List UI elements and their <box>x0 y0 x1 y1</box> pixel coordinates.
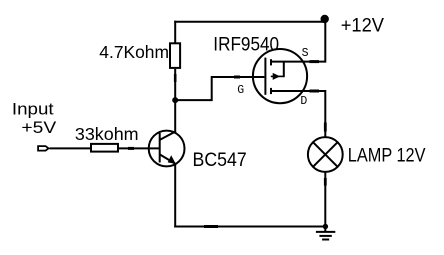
wire drain stub to lamp <box>271 91 325 137</box>
svg-text:D: D <box>300 95 307 108</box>
emitter diagonal <box>160 154 175 163</box>
input connector tag <box>38 146 48 151</box>
wire overlap tick S stub <box>310 60 320 63</box>
wire lamp to ground junction <box>324 172 326 227</box>
wire overlap tick D stub <box>310 90 320 93</box>
transistor Q1 BC547 (NPN) body circle <box>149 131 185 167</box>
lamp cross <box>313 142 338 167</box>
svg-text:S: S <box>302 47 309 60</box>
svg-text:33kohm: 33kohm <box>75 124 139 144</box>
body line with arrow <box>271 75 284 77</box>
wire overlap tick base <box>128 147 134 150</box>
svg-text:BC547: BC547 <box>193 150 247 171</box>
wire overlap tick rail <box>204 225 218 228</box>
wire connector to R2 <box>49 147 90 149</box>
svg-text:4.7Kohm: 4.7Kohm <box>99 42 169 62</box>
wire rail corner down to R1 <box>174 21 176 43</box>
lamp LA1 <box>308 137 343 172</box>
collector diagonal <box>160 131 176 140</box>
resistor R2 33kohm <box>91 144 118 152</box>
wire overlap tick lamp bottom <box>324 178 327 186</box>
svg-text:Input: Input <box>12 101 54 119</box>
ground junction dot <box>323 224 328 229</box>
drain contact plate <box>270 88 272 94</box>
+12V terminal dot <box>321 15 329 23</box>
body-source connector <box>283 62 285 78</box>
wire source stub to +12V corner <box>271 22 325 62</box>
wire emitter down to ground rail <box>174 164 176 228</box>
body arrow head <box>273 73 281 80</box>
wire top rail <box>174 21 325 23</box>
emitter arrow head <box>168 155 176 164</box>
wire bottom rail <box>174 226 325 228</box>
resistor R1 4.7Kohm <box>170 43 180 68</box>
junction node dot <box>172 97 178 103</box>
svg-text:IRF9540: IRF9540 <box>213 33 279 55</box>
gate bar <box>264 58 266 95</box>
wire overlap tick lamp top <box>324 123 327 132</box>
wire overlap tick gate <box>234 76 240 79</box>
transistor Q2 IRF9540 (P-MOSFET) body circle <box>253 49 307 103</box>
ground <box>324 227 326 233</box>
svg-text:LAMP 12V: LAMP 12V <box>348 145 426 167</box>
base bar <box>159 133 161 163</box>
wire junction to gate <box>177 77 264 100</box>
wire R1 bottom to collector <box>174 69 176 132</box>
svg-text:G: G <box>237 84 244 97</box>
source contact plate <box>270 59 272 65</box>
svg-text:+12V: +12V <box>341 15 384 37</box>
svg-text:+5V: +5V <box>21 118 57 137</box>
wire R2 to base <box>119 147 160 149</box>
wire overlap tick below R1 <box>174 74 177 82</box>
